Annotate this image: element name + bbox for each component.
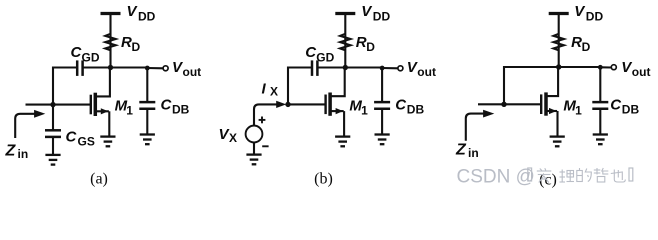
watermark glyph li — [560, 170, 575, 183]
svg-text:R: R — [356, 34, 367, 51]
node C_DB tap junction (c) — [598, 65, 603, 70]
wire gate to C_GS (a) — [52, 105, 54, 130]
svg-text:DB: DB — [622, 103, 640, 117]
transistor M1 (b): drain connection — [330, 68, 345, 97]
node drain junction (b) — [343, 65, 348, 70]
svg-text:out: out — [183, 65, 202, 79]
transistor M1 (a): source arrow — [101, 108, 109, 114]
wire V_X to gate with I_X arrow (b) — [254, 104, 277, 125]
watermark glyph zhe — [594, 168, 609, 182]
wire to output terminal (a) — [147, 67, 163, 69]
svg-text:DD: DD — [586, 10, 604, 24]
wire C_DB to ground (c) — [599, 109, 601, 135]
svg-text:CSDN @: CSDN @ — [457, 167, 535, 188]
transistor M1 (c): drain connection — [546, 67, 558, 96]
wire feedback wire to gate (c) — [503, 66, 505, 104]
svg-text:C: C — [610, 97, 622, 114]
wire gate wire (b) — [288, 103, 326, 105]
capacitor C_GD (a) — [76, 60, 79, 76]
svg-text:GS: GS — [78, 135, 95, 149]
resistor R_D (c) — [554, 34, 564, 50]
Z_in arrow (a) — [15, 114, 35, 138]
watermark glyph ai — [537, 168, 552, 182]
ground C_DB (b) — [375, 135, 390, 145]
wire C_GD right segment to drain (b) — [317, 66, 345, 68]
ground C_DB (c) — [593, 135, 608, 145]
svg-text:out: out — [632, 65, 651, 79]
ground C_DB (a) — [140, 135, 155, 145]
resistor R_D (b) — [340, 34, 350, 50]
transistor M1 (a): channel bar — [94, 93, 98, 116]
svg-text:R: R — [571, 34, 582, 51]
wire drain to C_DB tap (a) — [111, 66, 148, 68]
svg-text:in: in — [18, 147, 29, 161]
svg-text:D: D — [582, 40, 591, 54]
node C_DB tap junction (b) — [380, 66, 385, 71]
svg-text:(b): (b) — [314, 171, 333, 188]
arrowhead Z_in (a) — [34, 110, 45, 118]
wire C_GD left segment (b) — [287, 66, 312, 68]
wire source to ground (c) — [556, 111, 558, 137]
output terminal circle V_out (a) — [163, 66, 168, 71]
svg-text:1: 1 — [361, 104, 368, 118]
VDD supply bar fig b — [335, 12, 355, 15]
wire feedback wire C_GD to gate (a) — [52, 67, 54, 105]
svg-text:C: C — [395, 97, 407, 114]
transistor M1 (b): source wire — [330, 110, 344, 112]
output terminal circle V_out (c) — [611, 65, 616, 70]
transistor M1 (c): source wire — [546, 110, 557, 112]
wire to output terminal (c) — [600, 66, 611, 68]
svg-text:DB: DB — [172, 103, 190, 117]
capacitor C_DB (b) — [374, 101, 390, 104]
watermark glyph de — [577, 168, 592, 182]
wire V_X to ground (b) — [253, 142, 255, 155]
capacitor C_DB (c) — [592, 101, 608, 104]
VDD supply bar fig a — [101, 12, 121, 15]
svg-text:Z: Z — [5, 143, 17, 160]
node gate junction (a) — [50, 102, 55, 107]
svg-text:V: V — [361, 3, 373, 20]
watermark bracket glyph box left — [528, 168, 532, 181]
ground M1 source (b) — [335, 137, 350, 147]
wire resistor to drain node (a) — [109, 50, 111, 68]
wire C_DB to ground (a) — [146, 109, 148, 135]
wire resistor to drain node (b) — [344, 50, 346, 68]
svg-text:1: 1 — [575, 104, 582, 118]
wire input stub (a) — [26, 104, 54, 106]
node gate junction (c) — [501, 102, 506, 107]
voltage source V_X (b) — [246, 126, 263, 143]
svg-text:C: C — [66, 129, 78, 146]
svg-text:V: V — [574, 3, 586, 20]
svg-text:(a): (a) — [90, 171, 108, 188]
svg-text:D: D — [132, 40, 141, 54]
node drain junction (a) — [108, 65, 113, 70]
minus sign V_X (b) — [262, 145, 268, 147]
capacitor C_GS (a) — [45, 129, 61, 132]
transistor M1 (a): source wire — [95, 110, 109, 112]
svg-text:Z: Z — [455, 142, 467, 159]
wire gate wire (a) — [53, 104, 91, 106]
node gate junction (b) — [285, 102, 290, 107]
wire feedback top wire (c) — [503, 66, 559, 68]
svg-text:out: out — [417, 65, 436, 79]
ground M1 source (c) — [550, 137, 565, 147]
ground C_GS (a) — [45, 155, 60, 165]
watermark glyph ye — [611, 170, 626, 183]
transistor M1 (a): drain connection — [95, 68, 110, 97]
svg-text:GD: GD — [82, 51, 100, 65]
wire drain to C_DB tap (b) — [345, 66, 382, 68]
wire VDD stem to resistor (a) — [109, 34, 111, 50]
svg-text:D: D — [366, 40, 375, 54]
Z_in arrow (c) — [466, 114, 484, 141]
svg-text:1: 1 — [126, 104, 133, 118]
svg-text:X: X — [270, 85, 278, 99]
capacitor C_DB (a) — [139, 101, 155, 104]
node C_DB tap junction (a) — [145, 66, 150, 71]
wire C_DB to ground (b) — [381, 109, 383, 135]
resistor R_D (a) — [105, 34, 115, 50]
wire VDD stem to resistor (c) — [558, 34, 560, 50]
VDD supply bar fig c — [549, 12, 569, 15]
wire drain to C_DB tap (c) — [559, 66, 601, 68]
svg-text:C: C — [161, 97, 173, 114]
transistor M1 (b): channel bar — [328, 93, 332, 116]
svg-text:in: in — [468, 146, 479, 160]
node drain junction (c) — [556, 64, 561, 69]
wire VDD stem fig c — [558, 14, 560, 35]
wire VDD stem fig a — [109, 14, 111, 35]
svg-text:V: V — [127, 3, 139, 20]
wire tap to C_DB (c) — [599, 67, 601, 102]
svg-text:DB: DB — [407, 103, 425, 117]
wire to output terminal (b) — [382, 67, 398, 69]
wire tap to C_DB (a) — [146, 68, 148, 103]
wire C_GD left segment (a) — [52, 66, 77, 68]
wire input stub (c) — [478, 103, 504, 105]
svg-text:R: R — [121, 34, 132, 51]
arrowhead I_X (b) — [276, 101, 286, 108]
ground M1 source (a) — [100, 137, 115, 147]
svg-text:X: X — [229, 131, 237, 145]
plus sign V_X (b) — [259, 117, 266, 124]
transistor M1 (b): gate bar — [324, 95, 326, 115]
ground V_X (b) — [246, 155, 261, 165]
wire C_GD right segment to drain (a) — [83, 66, 111, 68]
wire tap to C_DB (b) — [381, 68, 383, 103]
svg-text:I: I — [262, 81, 267, 98]
svg-text:DD: DD — [373, 10, 391, 24]
transistor M1 (a): gate bar — [90, 95, 92, 115]
svg-text:GD: GD — [316, 51, 334, 65]
wire feedback wire C_GD to gate (b) — [287, 67, 289, 105]
transistor M1 (c): gate bar — [540, 94, 542, 114]
transistor M1 (c): source arrow — [549, 108, 557, 114]
wire resistor to drain node (c) — [558, 50, 560, 67]
output terminal circle V_out (b) — [398, 66, 403, 71]
wire gate wire (c) — [504, 103, 541, 105]
capacitor C_GD (b) — [311, 60, 314, 76]
watermark bracket glyph box right — [629, 168, 633, 181]
wire source to ground (b) — [343, 111, 345, 137]
wire C_GS to ground (a) — [52, 137, 54, 155]
wire VDD stem to resistor (b) — [344, 34, 346, 50]
transistor M1 (b): source arrow — [336, 108, 344, 114]
arrowhead Z_in (c) — [483, 110, 494, 118]
wire source to ground (a) — [108, 111, 110, 136]
wire VDD stem fig b — [344, 14, 346, 35]
svg-text:DD: DD — [138, 10, 156, 24]
transistor M1 (c): channel bar — [544, 92, 548, 115]
